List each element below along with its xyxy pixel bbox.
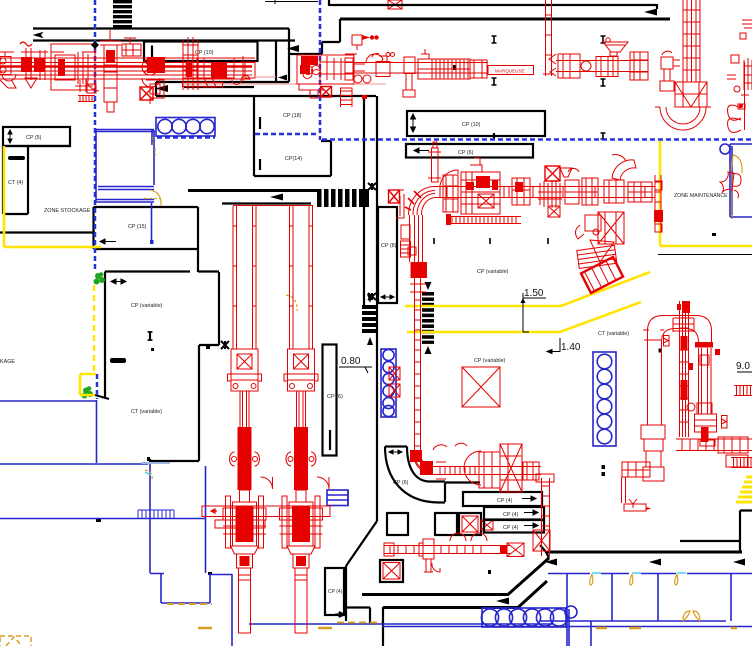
red x-box under band left <box>140 87 153 100</box>
machine frame x51-95 <box>51 44 95 90</box>
machine tower on center line x431 <box>428 142 441 182</box>
ticks small misc <box>96 65 716 575</box>
boxes CP4 stack <box>463 492 544 533</box>
box CT4 <box>3 146 70 214</box>
bowtie near 225,345 <box>221 341 229 349</box>
svg-text:CP (6): CP (6) <box>458 150 474 156</box>
pale blue segment <box>141 462 170 464</box>
machine cluster x443-500 <box>443 158 523 214</box>
svg-text:CP (4): CP (4) <box>328 589 343 595</box>
red flag piece x352 y35 <box>352 35 379 50</box>
svg-text:CP(14): CP(14) <box>285 156 302 162</box>
right assembly column A <box>677 301 693 437</box>
wall diagonal corridor bottom-center <box>362 558 549 608</box>
machine row right-top <box>549 52 648 80</box>
green clover 1 <box>94 272 106 284</box>
robot column x679-706 <box>655 0 711 130</box>
right assembly left foot <box>622 425 666 511</box>
bottom conveyor rails <box>384 543 510 556</box>
svg-text:CP (variable): CP (variable) <box>477 269 509 275</box>
dimension 9.0 cut <box>736 361 752 372</box>
small arrows near mid stair <box>367 294 373 345</box>
blue rooms bottom right <box>249 574 752 646</box>
tall red structure x181-199 <box>183 37 223 90</box>
dimension 1.50 <box>521 288 547 332</box>
svg-text:0.80: 0.80 <box>341 356 361 367</box>
box CP5 <box>3 127 70 146</box>
machine cluster x297-354 top-center <box>297 55 354 98</box>
svg-text:CP (4): CP (4) <box>497 498 513 504</box>
dashed blue stub x97 lower <box>96 374 99 399</box>
svg-text:CP (5): CP (5) <box>26 135 42 141</box>
box CP8 <box>378 207 397 303</box>
wall segment y461 <box>149 459 151 464</box>
dome arc x365 <box>366 54 383 62</box>
machine U x345-375 <box>345 54 371 83</box>
lower vertical rails x541-550 <box>536 474 554 556</box>
right assembly bottom conveyor <box>676 437 752 467</box>
svg-text:ZONE STOCKAGE: ZONE STOCKAGE <box>44 208 91 214</box>
dashed blue vertical x320 <box>319 0 322 140</box>
lower conveyor elbow <box>410 450 433 475</box>
wall room CP/CT variable left <box>105 272 219 462</box>
robot cluster lower right of line <box>575 212 624 268</box>
blue room top-left <box>96 130 154 203</box>
svg-text:CT (variable): CT (variable) <box>131 409 162 415</box>
red comb right edge 2 <box>731 458 752 468</box>
lower conveyor rails <box>432 462 541 479</box>
flower top right <box>728 62 749 132</box>
wall corridor verticals x364 x377 <box>346 96 383 646</box>
arrow small near x283 <box>278 75 287 81</box>
yellow steps right edge <box>736 477 752 502</box>
blue circle row bottom <box>481 606 577 627</box>
black comb x423-434 <box>422 282 434 354</box>
tilted crate <box>581 257 623 293</box>
wall stub right of CT variable <box>95 395 109 399</box>
orange dashed rect bottom-left corner <box>0 636 31 646</box>
blue circle row top <box>156 118 215 137</box>
svg-text:CP (6): CP (6) <box>327 394 343 400</box>
funnel small x560 <box>560 168 572 177</box>
big red x-box center room <box>462 367 500 407</box>
machine box x376-390 <box>372 53 395 77</box>
vertical conveyor rails x409-423 <box>390 190 427 455</box>
blue rack small mid <box>327 490 348 506</box>
box CP6 tall near towers <box>323 345 343 456</box>
red x-box top center <box>388 0 402 9</box>
red comb right edge 1 <box>734 386 752 396</box>
svg-text:CP (4): CP (4) <box>503 525 519 531</box>
arc corridor CP6 <box>385 447 480 503</box>
center line horizontal rails <box>435 187 652 198</box>
machine flange x538-562 <box>538 180 562 208</box>
red x-boxes on blue rack <box>389 367 400 397</box>
machine end right x628-663 <box>628 175 663 232</box>
box CP10 #2 <box>407 111 545 139</box>
blue column circles right <box>593 352 616 446</box>
svg-text:1.50: 1.50 <box>524 288 544 299</box>
red x-box x321 y86 <box>321 87 332 98</box>
right assembly pipe <box>643 316 712 426</box>
svg-text:CP (variable): CP (variable) <box>131 303 163 309</box>
blue room maintenance right <box>720 144 752 217</box>
right assembly column B <box>687 342 717 446</box>
box CP15 <box>94 207 199 272</box>
blue rack column with circles <box>381 349 396 417</box>
red ladder x340 <box>340 88 353 107</box>
orange mini arcs near y470 <box>145 470 152 480</box>
box CP4 bottom tall <box>325 568 344 617</box>
x-box red solid x507 <box>500 543 524 557</box>
dimension 0.80 <box>339 356 372 373</box>
meander hooks <box>232 76 250 85</box>
wall bottom small boxes row <box>387 513 493 535</box>
box CP10 top-left <box>144 42 276 83</box>
orange dashes bottom-left path <box>167 604 382 623</box>
band extras left <box>20 42 99 102</box>
arrow left near x160 <box>155 85 168 92</box>
fan arcs x600-640 <box>604 155 636 203</box>
dashed blue horizontal y139.5 <box>322 138 752 141</box>
svg-text:ZONE MAINTENANCE: ZONE MAINTENANCE <box>674 193 728 199</box>
svg-text:CP (10): CP (10) <box>462 122 481 128</box>
right assembly small square <box>659 336 728 429</box>
x-box above line x545 <box>545 166 560 181</box>
dashed blue vertical x95 <box>94 0 97 272</box>
red dot on wall <box>362 95 367 99</box>
x-box below line x548 <box>548 206 560 217</box>
funnel x603 <box>603 38 628 56</box>
flower mid right <box>720 172 741 198</box>
comb conveyor x450-521 <box>446 214 521 225</box>
stair hatch top-left <box>113 0 132 28</box>
corridor bowties <box>361 183 376 300</box>
machine x55-95 <box>55 52 96 93</box>
svg-text:MARQUEUSE: MARQUEUSE <box>495 69 525 74</box>
orange door arc maintenance <box>731 155 742 173</box>
marks x122-141 <box>122 38 141 56</box>
cyan door marks <box>145 472 686 573</box>
x-box black outline red x x380 <box>380 560 403 582</box>
machine end x470-487 <box>470 60 487 78</box>
wheel machine x140-165 <box>142 57 165 104</box>
yellow line right room <box>660 141 752 246</box>
bottom line arcs <box>450 533 487 541</box>
blue lines bottom-left <box>0 400 232 646</box>
dashed yellow x94 <box>93 285 95 374</box>
orange marks misc <box>144 137 737 628</box>
svg-text:CP (6): CP (6) <box>393 480 409 486</box>
wall CP18 left edge <box>254 96 331 176</box>
svg-text:KAGE: KAGE <box>0 359 15 365</box>
press tower 2 <box>280 206 330 633</box>
red bits on yellow wall <box>655 181 662 232</box>
blue comb on y518 <box>138 510 174 518</box>
press tower 1 <box>223 206 273 633</box>
svg-text:CP (8): CP (8) <box>381 243 397 249</box>
wall left y232 <box>0 231 95 233</box>
svg-text:CP (variable): CP (variable) <box>474 358 506 364</box>
red x-box x388 y190 <box>389 190 400 203</box>
dimension stub top <box>265 0 318 4</box>
orange door arcs bottom rooms <box>590 574 700 621</box>
machine x565-598 <box>565 168 598 205</box>
door arc on center line <box>440 170 458 186</box>
lower line machines <box>433 443 539 492</box>
arrow left near x288 <box>287 45 299 52</box>
machine block far-left <box>0 52 16 88</box>
machine end x243-258 <box>243 56 276 82</box>
corridor stair hatch mid <box>362 305 378 333</box>
bottom line center machine <box>419 539 440 572</box>
thin line under yellow right <box>658 254 752 256</box>
svg-text:9.0: 9.0 <box>736 361 750 372</box>
machine big x104 <box>100 30 121 112</box>
conveyor top-left band <box>0 58 386 84</box>
dashed blue under circle row <box>157 136 215 139</box>
machine block x21-48 <box>21 48 48 80</box>
wall y190 corridor with vertical hatch <box>188 189 369 207</box>
wall top-center upper <box>329 0 670 19</box>
clamp machine x660-680 <box>660 51 680 91</box>
dashed blue horizontal y134 <box>255 133 319 136</box>
svg-text:CP (4): CP (4) <box>503 512 519 518</box>
wall top-left double <box>33 19 341 82</box>
ticks black I <box>148 36 606 340</box>
x-box red x533 y530 <box>533 530 550 551</box>
svg-text:CP (15): CP (15) <box>128 224 147 230</box>
green clover 2 <box>82 386 94 398</box>
tower cross bar <box>202 506 330 528</box>
tower top connector <box>233 205 313 207</box>
svg-text:CT (variable): CT (variable) <box>598 331 629 337</box>
right edge machine bits top <box>727 20 752 92</box>
machine x512-530 <box>512 178 530 205</box>
symbols in left room <box>110 279 154 363</box>
red vertical pair x545 <box>543 0 554 76</box>
marqueuse box <box>488 66 534 75</box>
machine box x193-234 <box>193 58 234 87</box>
wall under top-left conveyor <box>156 82 376 96</box>
svg-text:1.40: 1.40 <box>561 342 581 353</box>
center line elbow <box>405 187 435 216</box>
svg-text:CT (4): CT (4) <box>8 180 23 186</box>
yellow path left <box>4 146 101 395</box>
box CP6 top <box>406 144 533 158</box>
machine comb x404-470 <box>403 49 470 97</box>
yellow lines center <box>405 272 650 332</box>
dimension 1.40 <box>547 338 581 354</box>
conveyor 2 rails top-center <box>345 63 488 74</box>
blue post in CP15 <box>151 203 153 243</box>
wall right bottom-right room <box>540 511 752 559</box>
svg-text:CP (18): CP (18) <box>283 113 302 119</box>
arrows bottom walls <box>496 559 745 605</box>
